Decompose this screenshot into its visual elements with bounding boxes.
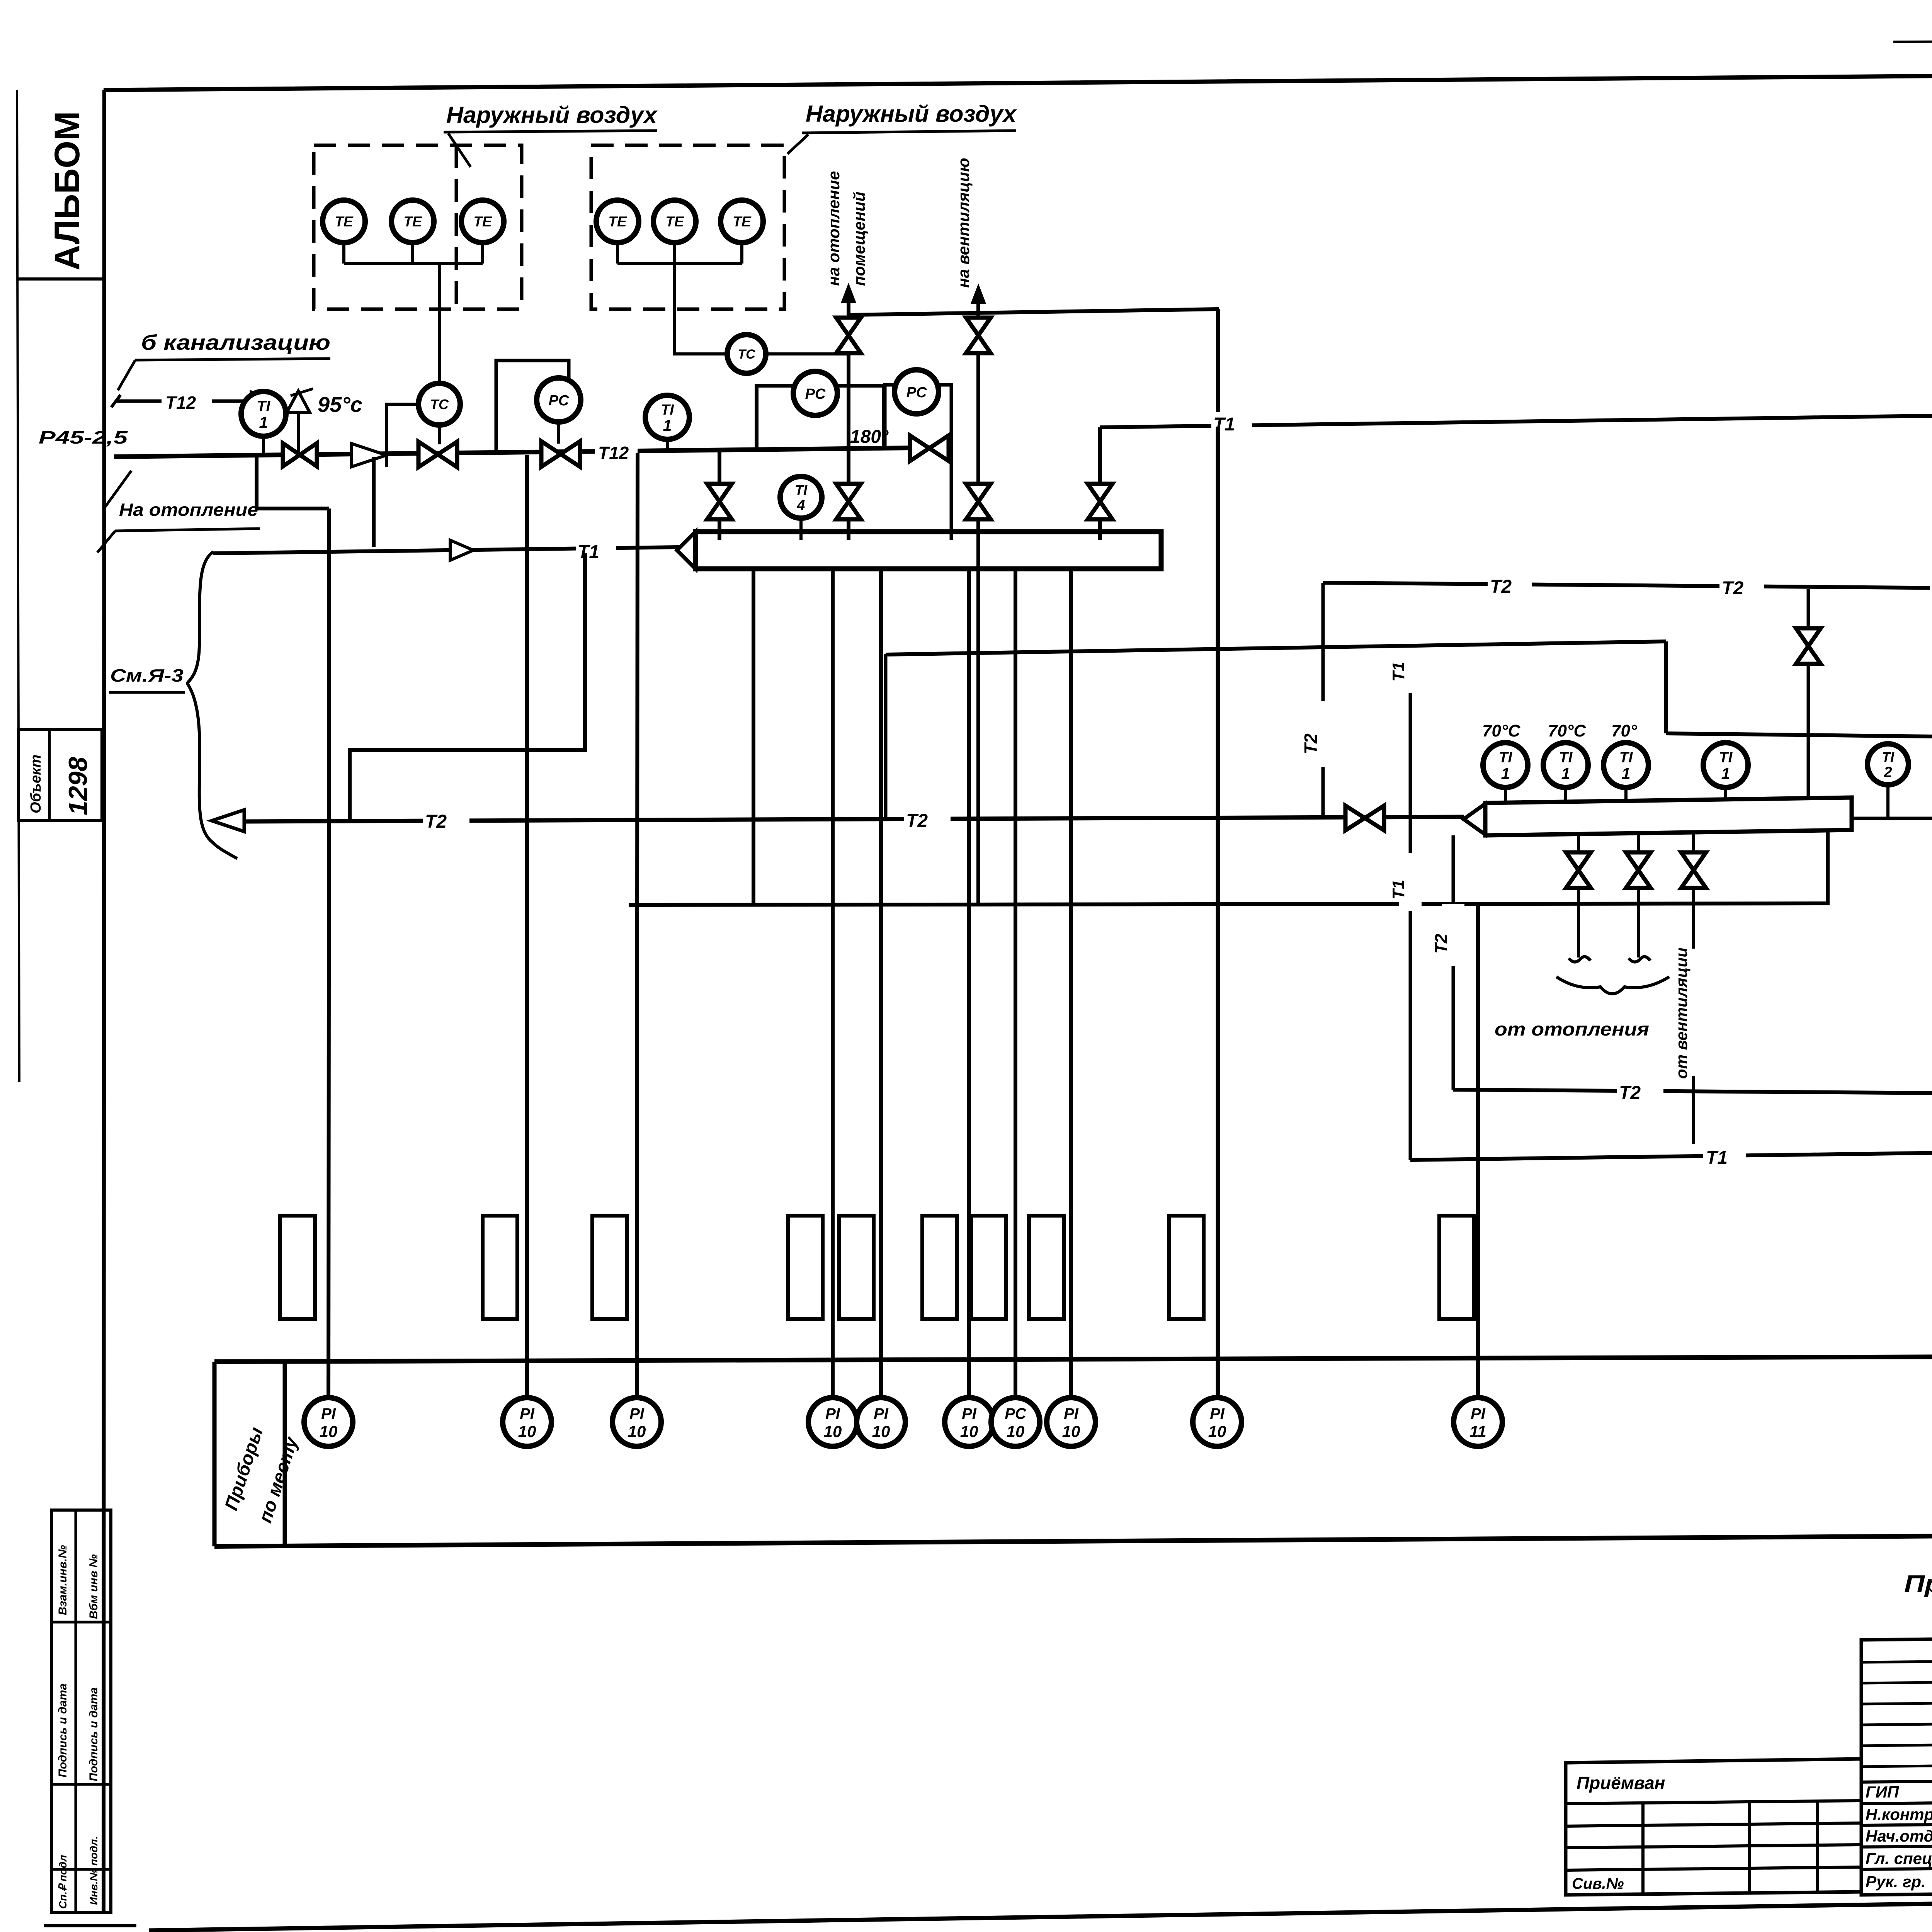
- svg-text:Т2: Т2: [1490, 577, 1512, 597]
- label T2 bus a: [1488, 574, 1532, 594]
- control valve 3 on supply: [910, 435, 929, 461]
- svg-text:10: 10: [1062, 1422, 1080, 1440]
- drain arrow: [251, 392, 274, 410]
- pipe corner 4312: [1664, 641, 1668, 733]
- wire TI1b stem: [666, 439, 669, 452]
- pipe T2 return low: [1453, 1090, 1932, 1094]
- svg-text:на отопление: на отопление: [825, 171, 843, 286]
- svg-text:РI: РI: [1471, 1405, 1486, 1422]
- svg-text:Сив.№: Сив.№: [1572, 1875, 1624, 1892]
- label T2 bus b: [1719, 576, 1764, 596]
- gauge TI1 r1: [1483, 743, 1528, 787]
- brace sm.Ya-3: [187, 552, 237, 859]
- svg-text:ТЕ: ТЕ: [665, 214, 684, 230]
- regulator PC2 loop: [757, 386, 884, 451]
- svg-text:180°: 180°: [850, 427, 889, 447]
- pipe T1 low bus: [1410, 1151, 1932, 1160]
- regulator PC1: [537, 378, 581, 422]
- wire TE group 1 connector: [344, 262, 483, 265]
- svg-text:ТЕ: ТЕ: [335, 214, 354, 230]
- check valve on supply: [352, 444, 386, 467]
- valve pair on supply: [282, 444, 285, 466]
- svg-text:РI: РI: [629, 1405, 645, 1422]
- indicator РI 10 at x2508: [945, 1398, 993, 1446]
- svg-text:1298: 1298: [63, 757, 93, 815]
- svg-text:от отопления: от отопления: [1495, 1019, 1649, 1040]
- svg-text:Т1: Т1: [1389, 662, 1408, 682]
- pipe T2 return to network: [243, 817, 1464, 821]
- gauge TI1 loop2: [645, 395, 689, 439]
- sensor TE1: [323, 200, 365, 243]
- indicator РI 10 at x1364: [503, 1398, 551, 1446]
- wire PI tap 8: [1069, 567, 1073, 1400]
- label T2 rotated c: [1442, 904, 1464, 966]
- svg-text:ТI: ТI: [1882, 749, 1895, 765]
- dashed enclosure box 1 naruzhny vozdukh: [314, 145, 522, 309]
- manifold 2 return header: [1464, 804, 1485, 835]
- pipe T12 main supply: [114, 447, 951, 457]
- svg-text:РI: РI: [1210, 1405, 1225, 1422]
- makeup valve drop: [1807, 589, 1810, 798]
- svg-text:1: 1: [1622, 765, 1631, 782]
- title block middle grid: [1861, 1637, 1932, 1895]
- page left scan edge: [17, 90, 19, 1082]
- leader to drain: [118, 360, 135, 390]
- title block signature table: [1566, 1759, 1861, 1895]
- svg-text:РI: РI: [1064, 1405, 1079, 1422]
- instrument well 7: [971, 1216, 1006, 1319]
- svg-text:Подпись и дата: Подпись и дата: [56, 1684, 69, 1777]
- svg-text:10: 10: [628, 1422, 646, 1440]
- svg-text:РI: РI: [321, 1405, 336, 1422]
- wire PC1 stem: [557, 422, 560, 444]
- wire PI tap 2: [525, 455, 529, 1400]
- wire PI tap 10: [1476, 904, 1480, 1400]
- svg-text:ТI: ТI: [1619, 749, 1633, 766]
- controller TC2: [727, 335, 766, 373]
- wire link corner: [884, 654, 888, 819]
- label T1 low bus: [1703, 1145, 1746, 1165]
- wire TE6 stem: [740, 243, 743, 264]
- pipe lower link H6: [629, 832, 1828, 905]
- wire PI tap 1: [328, 509, 329, 1400]
- label T1 on upper bus: [1211, 412, 1252, 432]
- frame bottom border: [149, 1893, 1932, 1930]
- gauge TI1 r4: [1703, 743, 1748, 787]
- label T1 on feed: [576, 540, 616, 560]
- manifold 1 supply header: [677, 532, 696, 569]
- svg-text:от вентиляции: от вентиляции: [1672, 947, 1690, 1079]
- svg-text:ТI: ТI: [257, 398, 271, 415]
- svg-text:Приёмван: Приёмван: [1577, 1773, 1665, 1793]
- svg-text:См.Я-3: См.Я-3: [110, 665, 184, 685]
- wire TE group 2 connector: [617, 262, 742, 265]
- svg-text:Приборы без позиций заказывают: Приборы без позиций заказываются в разде…: [1904, 1571, 1932, 1597]
- dashed divider inside box 1: [455, 145, 458, 309]
- svg-text:Вбм инв №: Вбм инв №: [87, 1554, 100, 1619]
- return branch otoplenie 2: [1637, 835, 1640, 855]
- svg-text:Т2: Т2: [1301, 733, 1321, 754]
- svg-text:1: 1: [663, 417, 672, 434]
- indicator РI 10 at x1648: [612, 1398, 661, 1446]
- svg-text:ТС: ТС: [430, 396, 449, 412]
- svg-text:Т12: Т12: [165, 393, 196, 413]
- instrument well 8: [1029, 1216, 1064, 1319]
- valve T1 at manifold: [1088, 484, 1112, 502]
- wire TE2 stem: [411, 243, 414, 264]
- svg-text:10: 10: [960, 1422, 978, 1440]
- svg-text:ТЕ: ТЕ: [608, 214, 627, 230]
- indicator РI 10 at x850: [304, 1398, 353, 1446]
- control valve heating: [836, 318, 861, 335]
- valve on T2 return: [1345, 806, 1365, 830]
- sensor TE3: [461, 200, 504, 243]
- control valve 2 on supply: [541, 441, 561, 467]
- pipe ventilation riser: [976, 303, 980, 906]
- regulator PC3 loop: [885, 385, 951, 448]
- valve ventilation at manifold: [966, 484, 991, 502]
- wire TI4 stem: [799, 518, 803, 540]
- pipe header to 1st stage: [1852, 818, 1932, 1034]
- svg-text:ТI: ТI: [795, 482, 808, 498]
- svg-text:на вентиляцию: на вентиляцию: [954, 158, 973, 288]
- svg-text:4: 4: [796, 497, 805, 514]
- svg-text:ТI: ТI: [1559, 749, 1573, 766]
- brace ot otopleniya: [1556, 977, 1669, 994]
- gauge TI1 r3: [1604, 743, 1648, 787]
- svg-text:РС: РС: [805, 386, 826, 402]
- svg-text:1: 1: [1501, 765, 1510, 782]
- svg-text:Гл. спец: Гл. спец: [1866, 1849, 1932, 1867]
- album label divider: [17, 277, 104, 281]
- svg-text:помещений: помещений: [850, 192, 868, 286]
- svg-text:1: 1: [259, 413, 268, 431]
- gauge TI1 loop1: [241, 391, 286, 436]
- svg-text:Нач.отд: Нач.отд: [1866, 1827, 1932, 1845]
- arrow T2 return: [212, 810, 244, 832]
- sensor TE4: [596, 200, 639, 243]
- indicator РI 10 at x3150: [1193, 1398, 1242, 1446]
- pipe T2 riser mid: [1321, 583, 1325, 819]
- svg-text:Т2: Т2: [1619, 1083, 1641, 1103]
- svg-text:Подпись и дата: Подпись и дата: [87, 1687, 100, 1781]
- valve heating at manifold: [836, 484, 861, 502]
- wire TE1 stem: [342, 243, 345, 264]
- label T1 rotated a: [1399, 635, 1422, 693]
- leader pressure label: [105, 471, 131, 507]
- svg-text:Т1: Т1: [578, 542, 599, 562]
- svg-text:РС: РС: [549, 393, 569, 409]
- svg-text:Т1: Т1: [1706, 1148, 1728, 1168]
- svg-text:ТС: ТС: [738, 347, 755, 362]
- indicator РI 10 at x2772: [1047, 1398, 1095, 1446]
- label T2 rotated mid: [1311, 701, 1335, 767]
- wire PI tap 3: [637, 453, 638, 1400]
- drain pipe T12: [116, 400, 162, 403]
- wire PC3 drop: [950, 448, 953, 540]
- svg-text:Т2: Т2: [906, 811, 928, 831]
- svg-text:Т2: Т2: [1432, 934, 1451, 954]
- label T1 rotated b: [1399, 853, 1422, 911]
- pipe manifold drop to H6: [752, 568, 755, 905]
- svg-text:Инв.№ подл.: Инв.№ подл.: [88, 1836, 100, 1905]
- gauge TI1 r2: [1543, 743, 1588, 787]
- left margin stamp column: [51, 1510, 111, 1913]
- sensor TE2: [391, 200, 434, 243]
- svg-text:10: 10: [518, 1422, 536, 1440]
- svg-text:Наружный воздух: Наружный воздух: [806, 101, 1017, 127]
- frame top border: [104, 76, 1932, 90]
- wire TE5 stem: [673, 243, 676, 264]
- svg-text:РI: РI: [962, 1405, 977, 1422]
- safety valve to drain: [287, 391, 310, 413]
- svg-text:70°С: 70°С: [1548, 721, 1587, 740]
- pipe T1 upper bus: [1100, 410, 1932, 427]
- leader line label 2: [787, 134, 808, 154]
- leader line label 1: [448, 133, 471, 167]
- pipe H-1658 link: [886, 641, 1666, 655]
- wire PI tap 9 long: [1216, 427, 1220, 1400]
- wire PI tap 5: [879, 567, 883, 1400]
- pipe T2 drop from manifold2: [1452, 835, 1455, 1090]
- svg-text:ТЕ: ТЕ: [473, 214, 492, 230]
- svg-text:10: 10: [824, 1422, 842, 1440]
- svg-text:70°: 70°: [1611, 721, 1637, 740]
- svg-text:Н.контр: Н.контр: [1866, 1805, 1932, 1823]
- svg-text:РI: РI: [520, 1405, 535, 1422]
- arrow heating supply up: [842, 286, 855, 302]
- wire PI tap 4: [831, 567, 835, 1400]
- pipe branch na otoplenie drop: [257, 457, 329, 509]
- svg-text:10: 10: [1007, 1422, 1025, 1440]
- pipe bypass T1 to T2: [350, 553, 585, 821]
- label T2 return b: [904, 808, 951, 828]
- page top scan edge: [1893, 40, 1932, 42]
- sensor TE6: [721, 200, 763, 243]
- svg-text:1: 1: [1721, 765, 1730, 782]
- panel label divider: [283, 1361, 287, 1546]
- svg-text:ТЕ: ТЕ: [403, 214, 422, 230]
- svg-text:10: 10: [1208, 1422, 1226, 1440]
- regulator PC3: [895, 370, 939, 414]
- svg-text:95°с: 95°с: [318, 392, 362, 417]
- panel pribory po mestu top: [214, 1355, 1932, 1362]
- indicator РI 10 at x2155: [808, 1398, 857, 1446]
- wire TI2 stem: [1886, 785, 1889, 818]
- instrument well 1: [280, 1216, 315, 1319]
- svg-text:ТI: ТI: [1719, 749, 1733, 766]
- wire TE group 1 drop to TC1: [438, 264, 441, 383]
- frame bottom left segment: [44, 1924, 136, 1927]
- label T2 return a: [423, 809, 469, 829]
- pipe heating supply riser: [847, 302, 850, 540]
- svg-text:РС: РС: [906, 384, 927, 401]
- pipe T1 riser mid: [1409, 641, 1412, 1160]
- svg-text:АЛЬБОМ: АЛЬБОМ: [48, 111, 87, 270]
- instrument well 3: [592, 1216, 627, 1319]
- svg-text:10: 10: [320, 1422, 338, 1440]
- svg-text:Р45-2,5: Р45-2,5: [39, 427, 128, 447]
- wire TE group 2 drop: [675, 264, 726, 354]
- wire TC1 tap: [386, 404, 419, 444]
- return branch otoplenie 1: [1577, 835, 1580, 855]
- svg-text:РI: РI: [874, 1405, 889, 1422]
- svg-text:Т12: Т12: [598, 443, 629, 463]
- panel left edge: [213, 1362, 217, 1546]
- pipe T1 heating feed line: [213, 547, 679, 553]
- wire TC1 to control valve: [438, 425, 441, 444]
- pipe H1 corner down: [1216, 309, 1220, 427]
- wire branch down to manifold via valve: [718, 451, 721, 540]
- pipe T2 low bus right: [1666, 733, 1932, 743]
- label T2 bus c: [1930, 577, 1932, 597]
- arrow on T1 feed: [450, 540, 473, 560]
- controller TC1: [418, 383, 460, 425]
- svg-text:Рук. гр.: Рук. гр.: [1866, 1872, 1926, 1891]
- wire TE3 stem: [481, 243, 484, 264]
- wire PI tap 6: [967, 567, 971, 1400]
- indicator РI 10 at x2280: [857, 1398, 905, 1446]
- svg-text:Объект: Объект: [28, 755, 44, 813]
- svg-text:2: 2: [1883, 764, 1892, 781]
- svg-text:б канализацию: б канализацию: [141, 330, 330, 354]
- gauge TI2 at header: [1867, 744, 1908, 785]
- svg-text:11: 11: [1469, 1422, 1486, 1440]
- instrument well 6: [922, 1216, 957, 1319]
- wire TE4 stem: [616, 243, 619, 264]
- leader na otoplenie: [97, 531, 115, 553]
- svg-text:Сп.₽ подл: Сп.₽ подл: [57, 1855, 69, 1909]
- return branch ventilyatsia: [1692, 834, 1695, 855]
- svg-text:Наружный воздух: Наружный воздух: [446, 102, 658, 128]
- wire PI tap 7: [1014, 567, 1017, 1400]
- svg-text:Т2: Т2: [1722, 578, 1743, 599]
- svg-text:На отопление: На отопление: [119, 500, 258, 520]
- svg-text:РI: РI: [825, 1405, 840, 1422]
- dashed enclosure box 2 naruzhny vozdukh: [591, 145, 784, 309]
- instrument well 9: [1169, 1216, 1204, 1319]
- svg-text:Т2: Т2: [425, 811, 447, 832]
- pipe tap to T1 feed: [372, 457, 376, 547]
- svg-text:ГИП: ГИП: [1866, 1783, 1899, 1801]
- regulator PC2: [793, 371, 837, 415]
- instrument well 4: [788, 1216, 823, 1319]
- wire TI1 stem: [262, 436, 265, 455]
- label T12 on pipe: [595, 441, 638, 461]
- gauge TI4: [780, 476, 822, 518]
- svg-text:70°С: 70°С: [1482, 721, 1521, 740]
- instrument well 5: [839, 1216, 874, 1319]
- instrument well 2: [483, 1216, 517, 1319]
- svg-text:10: 10: [872, 1422, 890, 1440]
- wire TC2 link to heating valve: [766, 352, 849, 355]
- pipe H1 upper link: [849, 309, 1219, 315]
- panel bottom: [214, 1532, 1932, 1546]
- frame left border: [104, 90, 104, 1913]
- valve on T12 drop: [707, 484, 732, 502]
- indicator РС 10 at x2628: [991, 1398, 1040, 1446]
- svg-text:ТI: ТI: [1499, 749, 1513, 766]
- instrument well 10: [1439, 1216, 1474, 1319]
- pipe T2 upper bus right: [1323, 583, 1932, 590]
- drain line T12 tick: [111, 395, 121, 407]
- object stamp box 1298: [19, 730, 102, 821]
- svg-text:Взам.инв.№: Взам.инв.№: [56, 1545, 69, 1615]
- label ot ventilyatsii rotated: [1683, 949, 1704, 1076]
- svg-text:1: 1: [1561, 765, 1570, 782]
- svg-text:ТI: ТI: [661, 402, 674, 418]
- indicator РI 11 at x3825: [1454, 1398, 1502, 1446]
- regulator PC1 bypass loop: [496, 361, 569, 454]
- arrow ventilation supply up: [972, 287, 985, 303]
- wire T1 into manifold: [1098, 427, 1102, 540]
- sensor TE5: [653, 200, 696, 243]
- svg-text:РС: РС: [1005, 1405, 1027, 1422]
- svg-text:ТЕ: ТЕ: [733, 214, 752, 230]
- label T2 low: [1617, 1080, 1663, 1100]
- svg-text:Т1: Т1: [1389, 880, 1408, 900]
- control valve ventilation: [966, 318, 991, 335]
- control valve 1 on supply: [418, 442, 438, 467]
